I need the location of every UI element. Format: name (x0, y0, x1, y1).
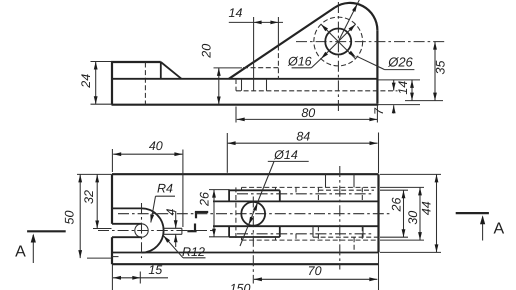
plan bottom edge (112, 263, 379, 265)
hidden vert x=362.3 upper (361, 187, 363, 201)
svg-text:A: A (493, 221, 504, 238)
extension/hidden line x=253.6 (253, 17, 255, 91)
horizontal centerline of boss (296, 41, 445, 43)
dimension 35 (right) (405, 100, 443, 102)
vertical centerline of boss (337, 2, 339, 111)
hidden groove top (243, 67, 280, 69)
svg-text:50: 50 (63, 211, 77, 225)
svg-text:32: 32 (82, 190, 96, 204)
hidden vert x=275.5 down (275, 237, 277, 240)
stub slot end (181, 228, 183, 234)
hidden vert x=241.5 down (241, 237, 243, 240)
dimension 20 (214, 67, 243, 69)
svg-text:Ø14: Ø14 (273, 148, 298, 162)
hidden vert x=354.1 lower (353, 237, 355, 252)
dimension 32 (93, 228, 112, 230)
dimension 30 (380, 186, 424, 188)
dimension 40 (111, 149, 113, 172)
slot edge x=266.5 (266, 79, 268, 91)
hole circle Ø16 (325, 29, 351, 55)
dimension 26 right (380, 189, 408, 191)
vertical centerline right (339, 166, 341, 270)
short vert x=354 top (353, 174, 355, 187)
arrow on outer arc (352, 4, 357, 12)
dimension 7 (right) (378, 104, 420, 106)
short vert x=325.5 top (325, 174, 327, 187)
small circle R4 slot end (135, 224, 148, 237)
arrow NW (321, 24, 328, 31)
dimension 14 (right) (378, 79, 421, 81)
groove top edge left (112, 207, 142, 209)
svg-text:4: 4 (164, 208, 178, 215)
dimension 44 (380, 173, 441, 175)
section mark A left (27, 230, 66, 232)
svg-text:26: 26 (197, 192, 211, 207)
hidden groove line top (242, 186, 379, 188)
arrow SW (321, 52, 328, 59)
section plane jog marks (195, 211, 208, 213)
section mark A right (456, 212, 489, 214)
dimension 24 (left) (91, 61, 112, 63)
dimension 50 (77, 173, 112, 175)
diameter diagonal NW-SE (321, 24, 356, 59)
long bar lower y=226.2 (213, 225, 379, 227)
hidden vert x=275.5 up (275, 187, 277, 190)
svg-text:14: 14 (229, 6, 243, 20)
dimension 15 (111, 264, 113, 290)
plan left edge upper (111, 174, 113, 224)
front view: base top edge (112, 78, 377, 80)
front view: bottom edge (112, 104, 379, 106)
plan top edge (112, 173, 379, 175)
hole Ø14 (241, 202, 265, 226)
front view: hidden edge in block (144, 63, 146, 104)
svg-text:14: 14 (396, 81, 410, 95)
arc vertical centerline (141, 203, 143, 258)
svg-text:80: 80 (301, 106, 315, 120)
hidden line x=278.4 lower (277, 46, 279, 80)
dimension 14 (top) (229, 21, 283, 23)
front view: big slope of gusset (229, 8, 335, 79)
svg-text:30: 30 (406, 211, 420, 225)
front view: small chamfer slope (161, 62, 182, 79)
hidden window top continuation (318, 189, 374, 191)
slot edge x=241.5 (241, 79, 243, 91)
extension line x=278.4 upper (277, 17, 279, 46)
dimension 70 (254, 278, 377, 280)
short vert x=313 lower (312, 226, 314, 237)
svg-text:84: 84 (296, 130, 310, 144)
stub slot top (163, 227, 182, 229)
window bottom edge (229, 236, 280, 238)
svg-text:7: 7 (372, 107, 386, 115)
plan right edge (377, 174, 379, 252)
svg-text:70: 70 (308, 264, 322, 278)
main horizontal centerline (118, 213, 392, 215)
front view: outer fillet arc (335, 3, 378, 30)
radius leader to outer arc (cut off) (339, 0, 359, 40)
svg-text:R4: R4 (157, 182, 173, 196)
right edge extension down (378, 252, 380, 290)
step line / groove bottom y=252.5 (112, 252, 379, 254)
front view: right edge (376, 30, 378, 103)
svg-text:44: 44 (419, 201, 433, 215)
dimension 80 (235, 107, 237, 123)
svg-text:26: 26 (390, 198, 404, 213)
svg-text:40: 40 (149, 139, 163, 153)
window left edge upper (228, 189, 230, 201)
svg-text:A: A (15, 243, 26, 260)
big arc R12 (142, 208, 164, 252)
front view outline: left block (112, 62, 161, 105)
hole vertical centerline (252, 197, 254, 284)
window right edge lower (279, 226, 281, 237)
window right edge upper (279, 190, 281, 201)
hidden vert x=235.9 (235, 187, 237, 240)
hidden groove line bottom (242, 239, 379, 241)
hidden vert x=318.4 upper (317, 187, 319, 201)
hidden vert x=296 up (295, 187, 297, 193)
arrow SE (349, 51, 357, 57)
hidden vert x=318.4 lower (317, 226, 319, 240)
short line at left edge y=256.6 (112, 256, 119, 258)
slot centerline upper (237, 193, 374, 195)
dashed circle Ø26 (314, 17, 363, 66)
arrow NE (349, 24, 356, 31)
through slot bottom edge (112, 236, 142, 238)
hidden vert x=236 (235, 79, 237, 91)
diameter diagonal NE-SW (321, 24, 356, 59)
short vert x=363 lower (362, 226, 364, 237)
hidden vert x=241.5 up (241, 187, 243, 190)
through slot top edge (112, 223, 142, 225)
front view: block right edge (160, 62, 162, 79)
hidden vert x=362.3 lower (361, 226, 363, 240)
long bar upper y=201.4 (213, 200, 379, 202)
plan left edge lower (111, 237, 113, 264)
svg-text:150: 150 (230, 281, 251, 290)
svg-text:24: 24 (79, 74, 93, 89)
dimension 26 left (209, 189, 229, 191)
svg-text:Ø16: Ø16 (287, 54, 312, 68)
window left edge lower (228, 226, 230, 237)
dimension 4 (stub) (175, 211, 177, 228)
hidden groove line y=90.8 (236, 90, 398, 92)
svg-text:R12: R12 (182, 245, 205, 259)
svg-text:15: 15 (148, 263, 162, 277)
dimension 84 (226, 133, 228, 173)
slot centerline left (98, 230, 213, 232)
hidden vert x=296 down (295, 234, 297, 240)
window top edge (229, 189, 280, 191)
stub slot bottom (163, 233, 182, 235)
svg-text:Ø26: Ø26 (387, 55, 413, 70)
slot centerline lower (237, 233, 374, 235)
svg-text:20: 20 (199, 44, 213, 59)
svg-text:35: 35 (434, 61, 448, 75)
hidden window bottom continuation (313, 236, 379, 238)
